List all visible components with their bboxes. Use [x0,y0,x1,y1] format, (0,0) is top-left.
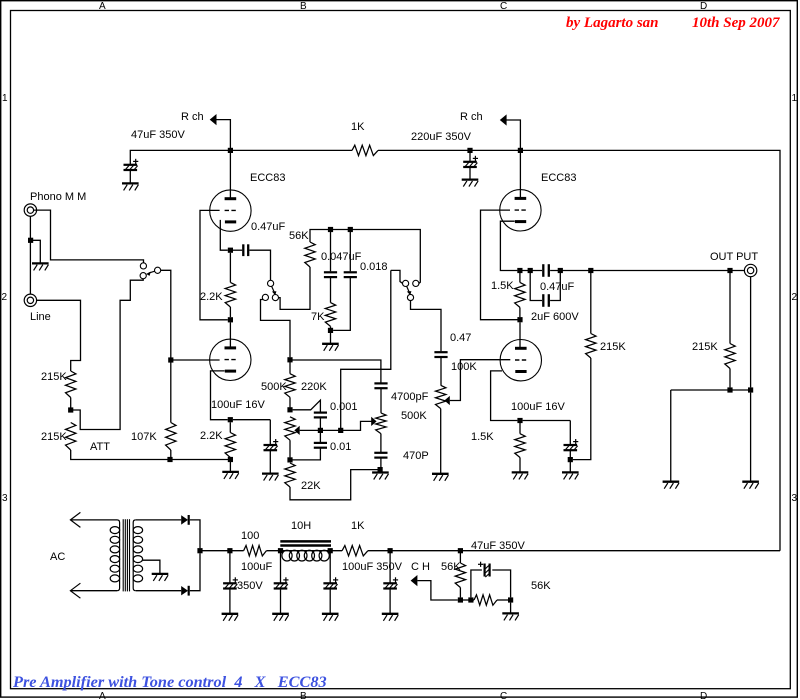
wire SRPP1 node to tube2 plate [229,322,231,348]
wire filter cap 4 to ground [389,589,391,613]
svg-text:D: D [700,1,707,12]
resistor 1.5K lower [515,434,525,458]
svg-text:1K: 1K [351,520,365,532]
wire output node to 0.47uF out [523,270,543,272]
node filter cap 4 [388,548,393,553]
svg-text:2: 2 [792,292,798,303]
resistor 215K attenuator upper [66,371,76,398]
wire S1 common to 56K bottom [279,267,310,309]
switch tone S1 common contact [272,295,278,301]
switch S2 common contact [407,294,413,300]
wire selector common to 107K and grid [161,270,171,360]
arrow AC input top [70,512,80,527]
node 0.018 top [348,227,353,232]
wire secondary bottom to diode [136,590,181,592]
wire filter cap 1 top lead [229,553,231,583]
node tube3 cathode output [517,268,522,273]
svg-text:100uF 16V: 100uF 16V [511,401,565,413]
wire output cap to connector [550,270,744,272]
wire diode bottom to node [190,553,200,591]
switch S2 arm [407,286,410,292]
wire AC bottom lead [70,590,117,592]
resistor 56K dropper [455,563,465,588]
node heater divider left [458,597,463,602]
node filter cap 2 [278,548,283,553]
wire S1 nc to tone network top [261,300,291,358]
capacitor 47uF 350V decoupling left [124,164,138,166]
wire tube3 grid loop [481,210,518,320]
svg-text:1: 1 [792,93,798,104]
svg-text:7K: 7K [311,311,325,323]
wire cathode node to 1.5K [519,273,521,282]
wire tone top node to treble wire [293,360,381,383]
svg-text:ECC83: ECC83 [250,172,285,184]
svg-text:0.47uF: 0.47uF [540,281,575,293]
node 2uF branch right [558,268,563,273]
svg-text:1: 1 [2,93,8,104]
wiper arrow treble pot right [371,417,376,426]
resistor 215K attenuator lower [66,423,76,451]
switch S2 left contact [403,280,409,286]
svg-text:A: A [99,1,106,12]
svg-text:500K: 500K [261,381,287,393]
wire 2.2K lower to ground rail [229,458,231,460]
wire PSU rail 100 to choke [266,550,342,552]
wire filter cap 2 to ground [280,589,282,613]
svg-text:470P: 470P [403,450,429,462]
switch tone S1 nc contact [262,294,268,300]
svg-text:47uF 350V: 47uF 350V [471,540,525,552]
ground filter cap 3 [322,613,339,615]
wire tube2 cathode lead [211,371,228,420]
diode rectifier top [181,515,188,524]
svg-text:350V: 350V [237,580,263,592]
resistor 107K [166,423,176,451]
wire bypass cap top lead [269,420,271,445]
capacitor filter 2 electrolytic [274,582,288,584]
wire 56K divider to ground node [497,599,508,601]
wire 0.001 to wiper rail [319,418,321,428]
capacitor filter 1 electrolytic [223,582,237,584]
svg-text:ATT: ATT [90,441,110,453]
node 7K bottom [328,328,333,333]
wire cathode node to 2.2K lower [229,422,231,432]
node SRPP2 mid [517,317,522,322]
wire 0.01 top lead [319,433,321,442]
wire 0.018 bottom to 7K node [333,278,350,331]
svg-text:C: C [500,691,507,700]
svg-text:C: C [500,1,507,12]
wire tap flag to 0.001 [293,400,321,412]
arrow R ch right [500,114,507,125]
wire output ground bus [671,389,748,391]
transformer primary winding loops [110,527,119,534]
wire tube1 grid loop [200,210,228,319]
resistor 1K (top rail) [352,145,378,155]
arrow R ch left [210,114,217,125]
ground 470P node [372,471,389,473]
node defeat line junction [338,428,343,433]
wire 0.018 top lead [349,230,351,272]
wire attenuator tap to selector Line contact [71,279,144,430]
ground bypass 2 [562,471,579,473]
svg-text:1.5K: 1.5K [491,280,514,292]
wire 0.47 to 100K pot [440,358,442,386]
capacitor 0.018 [344,271,357,273]
wire tube4 cathode lead [491,371,518,421]
wire 215K upper to tap [70,398,72,411]
wire 56K dropper top lead [459,553,461,563]
svg-text:Phono M M: Phono M M [30,191,86,203]
wire pot mid [289,397,291,407]
svg-text:0.47uF: 0.47uF [251,221,286,233]
node 0.047uF top [328,227,333,232]
ground output bus left [663,481,680,483]
wire 22K bottom loop to 470P node [290,470,378,500]
capacitor filter 4 electrolytic [383,582,397,584]
svg-text:215K: 215K [600,341,626,353]
resistor 56K divider [474,595,497,605]
wire ground drop left [670,390,672,482]
svg-text:10th Sep 2007: 10th Sep 2007 [692,15,780,31]
svg-text:220K: 220K [301,381,327,393]
svg-text:215K: 215K [41,371,67,383]
svg-text:0.001: 0.001 [330,401,358,413]
ground filter cap 1 [222,613,239,615]
node attenuator tap [68,407,73,412]
svg-text:220uF 350V: 220uF 350V [411,131,472,143]
wire filter cap 3 top lead [329,553,331,583]
wire phono hot to selector [34,210,144,263]
wire secondary top to diode [136,519,181,521]
svg-text:215K: 215K [41,431,67,443]
capacitor 0.01 [314,442,327,444]
wire grid tube2 [171,359,220,361]
ground 1.5K lower [512,471,529,473]
node tube2 cathode [228,417,233,422]
svg-text:215K: 215K [692,341,718,353]
wire 100K wiper to tube4 grid [450,360,511,401]
wire 470P bottom [380,458,382,467]
capacitor 4700pF [374,382,387,384]
wire 7K to node [330,326,332,328]
node tube4 cathode [517,418,522,423]
node 215K left top [588,268,593,273]
wire C H arrow to divider [417,581,457,600]
tube ECC83 V1 upper left [210,190,251,231]
wire 2uF loop right [550,273,560,301]
wire tone defeat bypass [341,270,391,428]
wire SRPP2 node to tube4 plate [519,322,521,348]
svg-text:2uF 600V: 2uF 600V [531,311,579,323]
wire coupling cap to tone switch [249,250,270,280]
choke 10H winding loops [282,550,292,561]
svg-text:2: 2 [2,292,8,303]
svg-text:2.2K: 2.2K [200,430,223,442]
node tone network top [287,357,292,362]
svg-text:47uF 350V: 47uF 350V [131,129,185,141]
wire B+ rail left segment with corner to 47uF cap [130,150,352,164]
svg-text:100uF 350V: 100uF 350V [342,561,403,573]
capacitor divider electrolytic [484,564,486,577]
resistor 100 [244,546,267,556]
node cathode ground rail [228,457,233,462]
capacitor 0.47uF coupling 1 [242,244,244,256]
wire S2 left contact to defeat line [391,270,403,283]
wire tube1 plate lead [229,153,231,199]
ground 7K node [322,343,339,345]
wire divider cap loop left [471,570,482,597]
wire S2 common down to 0.47 cap [411,301,442,352]
node output sleeve [748,387,753,392]
diode rectifier bottom [181,586,188,595]
wire divider cap loop right [492,570,510,597]
svg-text:B: B [300,691,307,700]
svg-text:OUT PUT: OUT PUT [710,251,758,263]
ground 47uF left [122,182,139,184]
wire filter cap 4 top lead [389,553,391,583]
wire phono sleeve down to Line connector [29,216,31,294]
capacitor 0.47 series [434,351,447,353]
wire 0.01 bottom to 22K node [293,448,321,460]
svg-text:A: A [99,691,106,700]
wire 215K left top lead [590,273,592,334]
wiper arrow bass pot [294,426,299,435]
connector OUT PUT [744,264,756,276]
svg-text:0.018: 0.018 [360,261,388,273]
wire bypass cap to ground [269,451,271,473]
capacitor 100uF 16V bypass 2 [564,444,578,446]
wire 2uF loop [530,273,542,301]
node tube2 grid wire [168,357,173,362]
wire PSU rail right [368,550,780,552]
wire cathode to bypass cap [233,419,270,421]
node 22K top [287,457,292,462]
node SRPP1 mid [228,317,233,322]
wire bypass cap 2 to node [569,451,571,457]
resistor 7K [325,303,335,327]
potentiometer 500K/220K upper section [285,374,295,398]
svg-text:D: D [700,691,707,700]
potentiometer 100K [436,385,446,408]
wire node to ground 7K [330,333,332,344]
svg-text:R ch: R ch [460,111,483,123]
wire ground drop right [750,393,752,482]
resistor 215K output left [586,334,596,359]
node 215K right top [727,268,732,273]
svg-text:4700pF: 4700pF [391,391,429,403]
wire pot bottom to 22K node [289,440,291,457]
resistor 215K output right [725,344,735,369]
resistor 1.5K upper [515,282,525,307]
svg-text:2.2K: 2.2K [200,291,223,303]
ground input jacks [32,262,49,264]
resistor 2.2K upper [225,282,235,307]
switch input selector common [155,267,161,273]
svg-text:0.01: 0.01 [330,441,351,453]
node filter cap 1 [227,548,232,553]
ground 100K pot [432,473,449,475]
wire 107K leads [170,360,172,423]
svg-text:100K: 100K [451,361,477,373]
node bypass 2 ground [568,457,573,462]
switch input selector arm [149,271,155,273]
transformer core laminations [122,519,124,591]
wire 100K pot bottom to ground [440,409,442,474]
resistor 56K tone [305,242,315,267]
wire cathode node to 1.5K lower [519,423,521,434]
arrow C H [411,575,418,586]
wire divider node link [463,599,474,601]
wire 2.2K to SRPP node [229,307,231,317]
node 215K right bottom [727,387,732,392]
resistor 22K [285,463,295,487]
wire 4700pF to treble pot [380,389,382,413]
wire secondary center tap [143,560,160,573]
svg-text:500K: 500K [401,410,427,422]
ground center tap [152,573,169,575]
switch S2 right contact [413,280,419,286]
node 220uF on rail [467,148,472,153]
switch tone S1 arm [272,286,275,292]
resistor 1K PSU [342,546,368,556]
svg-text:100: 100 [241,530,259,542]
ground heater divider [502,612,519,614]
svg-text:107K: 107K [131,431,157,443]
capacitor 0.001 [314,412,327,414]
svg-text:3: 3 [2,493,8,504]
wire R ch right to rail [506,120,520,148]
wiper arrow 100K pot [444,396,449,405]
wire tube1 cathode lead [220,220,228,250]
svg-text:100uF: 100uF [241,561,272,573]
wire cathode to coupling cap [233,249,242,251]
connector Line input [24,294,36,306]
capacitor 0.47uF output [542,264,544,277]
tube ECC83 V3 upper right [500,190,541,231]
wire filter cap 3 to ground [329,589,331,613]
svg-text:Pre Amplifier with Tone contro: Pre Amplifier with Tone control 4 X ECC8… [12,672,327,691]
svg-text:R ch: R ch [181,111,204,123]
svg-text:56K: 56K [441,561,461,573]
switch tone S1 input contact [268,280,274,286]
ground signal rail [222,471,239,473]
svg-text:1.5K: 1.5K [471,431,494,443]
node phono ground tap [28,238,33,243]
wire divider node to ground [510,603,512,614]
node 107K bottom on ground rail [167,457,172,462]
node 2uF branch left [528,268,533,273]
wire 56K top node rail [310,230,420,284]
wire AC top lead [70,519,117,521]
choke 10H core [280,540,331,543]
wire 0.047uF to 7K [330,278,332,303]
wire to input ground [31,240,41,263]
wire filter cap 1 to ground [229,589,231,613]
wire wiper rail [300,421,372,430]
svg-text:22K: 22K [301,480,321,492]
capacitor 220uF 350V decoupling right [463,161,477,163]
wire 1.5K to SRPP2 node [519,307,521,317]
svg-text:56K: 56K [289,230,309,242]
tube ECC83 V2 lower left [210,339,251,380]
wire 220uF to ground [469,168,471,180]
svg-text:56K: 56K [531,580,551,592]
wire cathode to bypass cap 2 [523,420,571,422]
svg-text:0.47: 0.47 [450,332,471,344]
wire to ground rail symbol [229,460,231,472]
node rectifier output [197,548,202,553]
svg-text:B: B [300,1,307,12]
wire 470P node to ground [379,470,381,473]
svg-text:by Lagarto san: by Lagarto san [566,15,659,31]
wire treble pot to 470P [380,434,382,452]
node tube1 plate on rail [228,148,233,153]
wire node to ground bypass 2 [569,460,571,473]
wire 1.5K lower to ground [519,458,521,473]
node tube1 cathode [228,248,233,253]
svg-text:100uF 16V: 100uF 16V [211,399,265,411]
ground 220uF [462,178,479,180]
tube ECC83 V4 lower right [500,340,541,381]
node divider right [508,597,513,602]
wire 215K right bottom [729,369,731,388]
wire tone top node down [289,360,291,374]
capacitor 470P [374,452,387,454]
node 56K dropper top [458,548,463,553]
connector Phono MM input [24,204,36,216]
transformer secondary winding loops [133,527,142,534]
capacitor filter 3 electrolytic [323,582,337,584]
arrow AC input bottom [70,583,80,598]
svg-text:AC: AC [50,551,65,563]
svg-text:0.047uF: 0.047uF [321,251,362,263]
transformer primary outline [117,520,120,591]
ground output bus right [742,481,759,483]
node 470P ground [378,467,383,472]
svg-text:1K: 1K [351,121,365,133]
ground filter cap 4 [382,613,399,615]
switch input selector contact phono [140,263,146,269]
capacitor 100uF 16V bypass 1 [264,444,278,446]
node divider cap left [468,597,473,602]
wire 56K dropper to node [459,588,461,598]
wire output sleeve down [750,277,752,388]
node 0.001/0.01 junction [318,428,323,433]
wire PSU rail to 100 ohm [200,550,244,552]
svg-text:Line: Line [30,311,51,323]
ground filter cap 2 [272,613,289,615]
potentiometer 500K treble [376,413,386,434]
svg-text:10H: 10H [291,520,311,532]
capacitor 0.047uF [324,271,337,273]
switch input selector contact line [140,273,146,279]
svg-text:ECC83: ECC83 [541,172,576,184]
transformer secondary outline [133,520,136,591]
wire 220uF top lead [469,150,471,161]
wire tube3 plate lead [519,153,521,199]
wire diode top to node [190,520,200,548]
potentiometer lower section with wiper [285,417,295,440]
svg-text:3: 3 [792,493,798,504]
svg-text:C H: C H [411,561,430,573]
wire filter cap 2 top lead [280,553,282,583]
wire 215K left bottom to ground node [573,358,591,460]
wire cathode node to 2.2K [229,253,231,283]
capacitor 2uF 600V [542,294,544,307]
wire line hot to attenuator [37,300,81,371]
wire bypass cap 2 top lead [569,421,571,445]
